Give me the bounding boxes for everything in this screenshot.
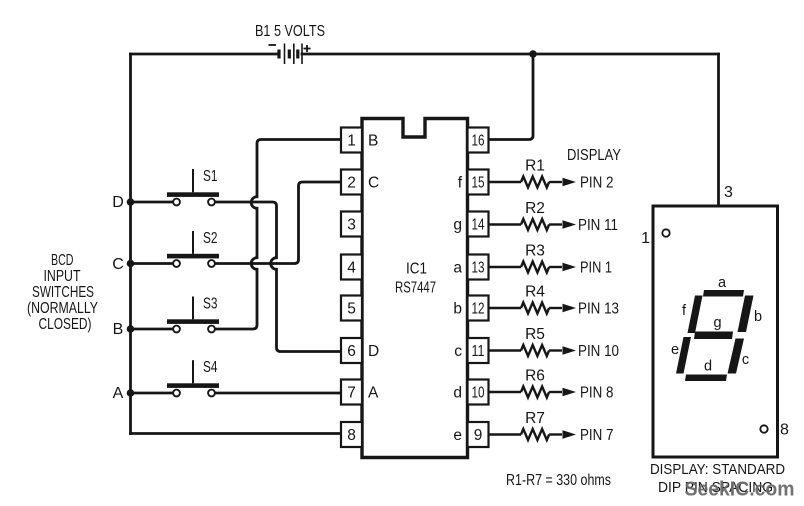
resistor R2 bbox=[489, 219, 562, 230]
svg-text:S3: S3 bbox=[203, 296, 218, 313]
svg-text:PIN 1: PIN 1 bbox=[580, 260, 612, 277]
svg-text:A: A bbox=[368, 385, 379, 402]
wire: B row from bus to switch S3 bbox=[131, 328, 175, 331]
svg-text:PIN 11: PIN 11 bbox=[578, 217, 618, 234]
IC U1 body RS7447 bbox=[362, 119, 468, 458]
svg-text:c: c bbox=[454, 343, 462, 360]
pin 9 bbox=[468, 422, 489, 447]
pin 15 bbox=[468, 170, 489, 195]
svg-text:R1-R7 = 330 ohms: R1-R7 = 330 ohms bbox=[506, 472, 611, 489]
display pin 1 circle bbox=[662, 229, 669, 236]
pin 5 bbox=[341, 296, 362, 321]
pin 16 bbox=[468, 128, 489, 153]
resistor R4 bbox=[489, 303, 562, 314]
svg-text:R6: R6 bbox=[525, 368, 545, 385]
pin 10 bbox=[468, 380, 489, 405]
pin 13 bbox=[468, 255, 489, 280]
wire: S1 to pin 6 (hops over B-row riser and C row) bbox=[214, 202, 341, 352]
svg-text:S2: S2 bbox=[203, 230, 218, 247]
svg-text:BCD: BCD bbox=[51, 252, 74, 269]
svg-text:5: 5 bbox=[347, 301, 356, 318]
pin 12 bbox=[468, 296, 489, 321]
switch S2 bbox=[167, 230, 219, 267]
wire: bottom run from bus to pin 8 bbox=[131, 432, 342, 435]
pin 8 bbox=[341, 422, 362, 447]
svg-text:4: 4 bbox=[347, 260, 356, 277]
svg-text:g: g bbox=[453, 217, 462, 234]
svg-text:e: e bbox=[671, 342, 679, 358]
node: junction dot on top rail feeding pin 16 bbox=[529, 50, 537, 58]
pin 4 bbox=[341, 255, 362, 280]
node: junction dot C row bbox=[127, 260, 135, 268]
svg-text:2: 2 bbox=[347, 175, 356, 192]
svg-text:a: a bbox=[453, 260, 462, 277]
svg-text:PIN 7: PIN 7 bbox=[580, 427, 614, 444]
pin 3 bbox=[341, 212, 362, 237]
wire: S2 to pin 2 bbox=[214, 182, 341, 264]
svg-text:R2: R2 bbox=[525, 200, 545, 217]
svg-text:3: 3 bbox=[724, 184, 733, 201]
segment a bbox=[703, 290, 744, 297]
pin 11 bbox=[468, 338, 489, 363]
svg-text:b: b bbox=[754, 309, 762, 325]
svg-text:e: e bbox=[453, 427, 462, 444]
svg-text:IC1: IC1 bbox=[406, 261, 427, 278]
svg-text:1: 1 bbox=[641, 230, 650, 247]
node: junction dot B row bbox=[127, 325, 135, 333]
svg-text:g: g bbox=[713, 315, 721, 331]
svg-text:f: f bbox=[458, 175, 463, 192]
wire: pin 16 to top rail bbox=[489, 54, 533, 140]
svg-text:R1: R1 bbox=[525, 158, 545, 175]
display pin 8 circle bbox=[760, 425, 767, 432]
switch S1 bbox=[167, 168, 219, 205]
svg-text:C: C bbox=[112, 256, 124, 273]
pin 2 bbox=[341, 170, 362, 195]
segment f bbox=[688, 296, 703, 334]
svg-text:b: b bbox=[453, 301, 462, 318]
pin 14 bbox=[468, 212, 489, 237]
svg-text:DISPLAY: DISPLAY bbox=[567, 147, 621, 164]
svg-text:SWITCHES: SWITCHES bbox=[32, 284, 94, 301]
svg-text:R5: R5 bbox=[525, 326, 545, 343]
svg-text:8: 8 bbox=[347, 427, 356, 444]
pin 6 bbox=[341, 338, 362, 363]
svg-text:SeekIC.com: SeekIC.com bbox=[685, 479, 795, 501]
svg-text:16: 16 bbox=[472, 133, 485, 150]
svg-text:B: B bbox=[368, 133, 378, 150]
svg-text:11: 11 bbox=[472, 343, 485, 360]
svg-text:R3: R3 bbox=[525, 243, 545, 260]
svg-text:10: 10 bbox=[472, 385, 485, 402]
svg-text:D: D bbox=[112, 194, 124, 211]
wire: top rail left of battery bbox=[131, 53, 278, 56]
svg-text:INPUT: INPUT bbox=[44, 268, 81, 285]
wire: top rail right of battery to display drop bbox=[302, 53, 719, 56]
wire: S3 to pin 1 (riser hops over C and D rows) bbox=[214, 140, 341, 330]
wire: C row from bus to switch S2 bbox=[131, 262, 175, 265]
resistor R6 bbox=[489, 387, 562, 398]
svg-text:R4: R4 bbox=[525, 284, 545, 301]
svg-text:3: 3 bbox=[347, 217, 356, 234]
wire: D row from bus to switch S1 bbox=[131, 201, 175, 204]
svg-text:15: 15 bbox=[472, 175, 485, 192]
svg-text:a: a bbox=[718, 275, 727, 291]
resistor R1 bbox=[489, 177, 562, 188]
svg-text:S1: S1 bbox=[203, 168, 218, 185]
segment c bbox=[728, 339, 745, 374]
svg-text:13: 13 bbox=[472, 260, 485, 277]
svg-text:A: A bbox=[113, 385, 124, 402]
segment d bbox=[685, 375, 727, 382]
segment b bbox=[738, 296, 754, 333]
segment e bbox=[676, 337, 691, 374]
svg-text:d: d bbox=[453, 385, 462, 402]
svg-text:B1 5 VOLTS: B1 5 VOLTS bbox=[255, 23, 325, 40]
wire: A row from bus through switch S4 to pin 7 bbox=[131, 392, 175, 395]
svg-text:c: c bbox=[742, 352, 749, 368]
svg-text:7: 7 bbox=[347, 385, 356, 402]
svg-text:PIN 10: PIN 10 bbox=[578, 343, 619, 360]
svg-text:CLOSED): CLOSED) bbox=[39, 316, 92, 333]
svg-text:B: B bbox=[113, 321, 124, 338]
svg-text:14: 14 bbox=[472, 217, 485, 234]
svg-text:PIN 2: PIN 2 bbox=[580, 175, 614, 192]
svg-text:RS7447: RS7447 bbox=[395, 280, 436, 297]
wire: S4 to pin 7 bbox=[214, 392, 341, 395]
display module box bbox=[653, 206, 778, 457]
switch S3 bbox=[167, 296, 219, 333]
svg-text:PIN 8: PIN 8 bbox=[580, 385, 614, 402]
svg-text:D: D bbox=[368, 343, 379, 360]
svg-text:S4: S4 bbox=[203, 359, 218, 376]
resistor R5 bbox=[489, 345, 562, 356]
wire: left input bus bbox=[129, 54, 132, 434]
label: BCD INPUT SWITCHES (NORMALLY CLOSED) bbox=[27, 252, 98, 333]
svg-text:d: d bbox=[704, 359, 712, 375]
svg-text:6: 6 bbox=[347, 343, 356, 360]
node: junction dot A row bbox=[127, 389, 135, 397]
resistor R7 bbox=[489, 429, 562, 440]
svg-text:(NORMALLY: (NORMALLY bbox=[27, 300, 98, 317]
svg-text:8: 8 bbox=[780, 422, 789, 439]
battery B1 bbox=[269, 44, 311, 65]
svg-text:C: C bbox=[368, 175, 379, 192]
switch S4 bbox=[167, 359, 219, 396]
svg-text:12: 12 bbox=[472, 301, 485, 318]
svg-text:1: 1 bbox=[347, 133, 356, 150]
resistor R3 bbox=[489, 262, 562, 273]
svg-text:PIN 13: PIN 13 bbox=[578, 301, 619, 318]
pin 1 bbox=[341, 128, 362, 153]
svg-text:9: 9 bbox=[474, 427, 483, 444]
svg-text:DISPLAY: STANDARD: DISPLAY: STANDARD bbox=[650, 461, 785, 478]
segment g bbox=[694, 332, 733, 340]
svg-text:R7: R7 bbox=[525, 410, 545, 427]
pin 7 bbox=[341, 380, 362, 405]
wire: drop from top rail to display box pin 3 bbox=[717, 54, 720, 206]
node: junction dot D row bbox=[127, 198, 135, 206]
